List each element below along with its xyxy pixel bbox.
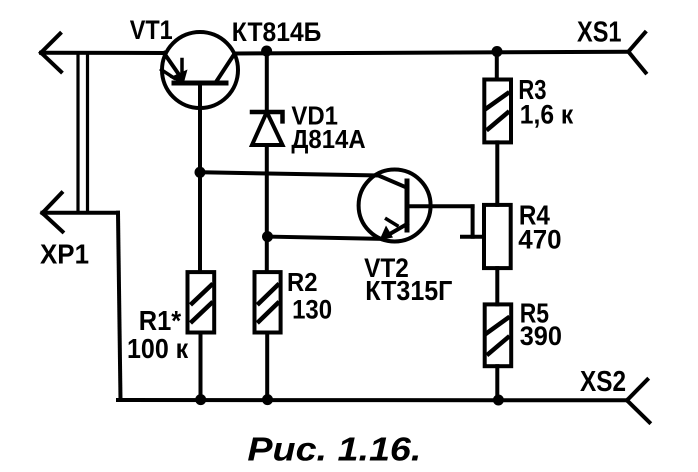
wire: R3 to R4 [495,142,499,205]
cable lines of XP1 [78,53,88,213]
transistor VT2 [359,170,431,242]
svg-text:VT1: VT1 [130,15,173,45]
wire: VT2 base to R4 wiper [407,206,484,236]
wire: XP1 pin 1 to VT1 emitter [41,51,164,55]
wire: node to VT2 collector [202,172,407,187]
svg-text:XS2: XS2 [580,366,626,398]
wire: R4 to R5 [495,268,499,304]
resistor R5 [485,304,512,366]
node: junction top rail / R3 [492,46,503,57]
connector XS1 socket [628,33,645,73]
svg-text:R2: R2 [287,269,318,297]
svg-text:470: 470 [518,225,561,255]
resistor R4 (adjustable) [484,205,511,268]
svg-text:КТ315Г: КТ315Г [365,275,453,306]
svg-text:XS1: XS1 [577,17,622,49]
resistor R1 [188,272,215,332]
wire: VT1 collector to XS1 (top output rail) [236,52,628,54]
node: junction top rail / VD1 [261,46,272,57]
node: junction VD1-R2 line / wire to VT2 emitter [262,231,273,242]
svg-text:Рис. 1.16.: Рис. 1.16. [247,431,421,468]
svg-text:130: 130 [292,294,332,324]
svg-text:КТ814Б: КТ814Б [232,17,322,47]
wire: node to VT2 emitter [268,237,381,239]
connector XS2 socket [627,380,649,423]
wire: R2 to bottom rail [265,333,269,401]
svg-text:Д814А: Д814А [291,124,365,154]
resistor R2 [255,272,281,332]
wire: XP1 pin 2 to bottom rail [42,213,120,400]
wire: top rail node down to R3 [495,52,499,80]
node: junction bottom rail / R2 [262,394,273,405]
resistor R3 [484,80,511,143]
node: junction bottom rail / R1 [195,394,206,405]
svg-text:1,6 к: 1,6 к [520,100,574,130]
wire: VT1 base down to R1 [198,83,202,272]
wire: R5 to bottom rail [495,366,499,400]
node: junction bottom rail / R5 [493,395,504,406]
svg-text:100 к: 100 к [127,333,189,364]
wire: bottom rail to XS2 [118,398,627,402]
svg-text:390: 390 [520,321,562,351]
wire: R1 to bottom rail [199,333,203,401]
transistor VT1 [162,32,239,108]
node: junction VT1 base / wire to VT2 collector [195,167,206,178]
connector XP1 pin 2 arrow [42,193,62,232]
zener diode VD1 [252,51,283,272]
connector XP1 pin 1 arrow [41,34,61,72]
svg-text:R1*: R1* [139,305,181,336]
svg-text:XP1: XP1 [40,239,89,270]
